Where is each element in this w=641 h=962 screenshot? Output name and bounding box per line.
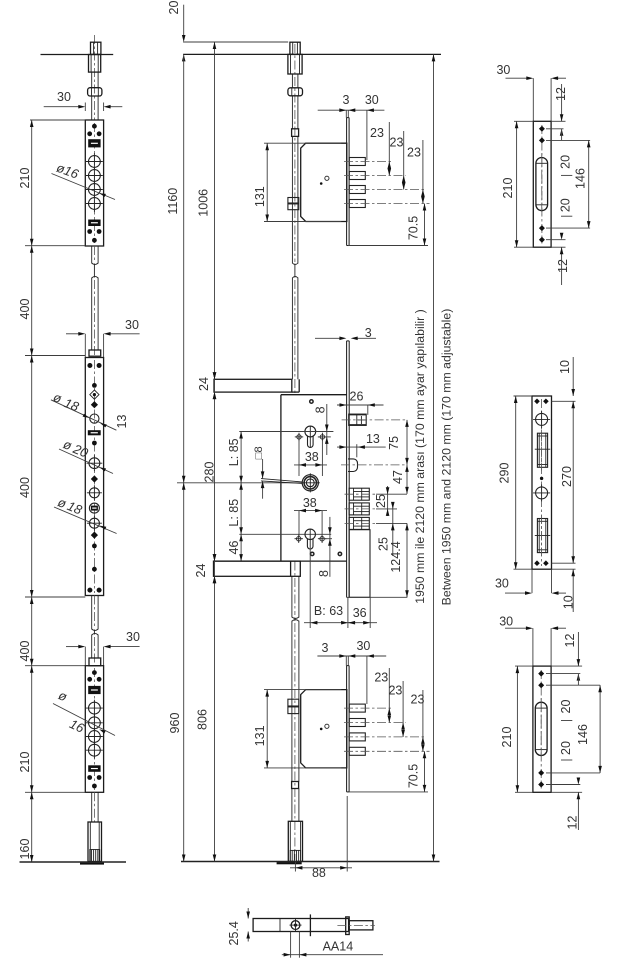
strike plate R3 bbox=[532, 628, 534, 666]
rod below mid lock bbox=[291, 576, 293, 617]
dim 270 R2 bbox=[552, 400, 576, 402]
leader Ø16 top bbox=[52, 174, 116, 200]
mid case screw hole top bbox=[310, 400, 313, 403]
svg-text:70.5: 70.5 bbox=[407, 764, 421, 788]
plate1 screws and logo top bbox=[92, 124, 97, 129]
svg-text:25: 25 bbox=[374, 494, 388, 508]
top tripler pins bbox=[349, 158, 365, 166]
section line bbox=[309, 914, 311, 936]
middle square connector top bbox=[292, 129, 299, 137]
bottom bolt tube middle bbox=[288, 821, 302, 861]
dim L:85 lower bbox=[240, 483, 242, 535]
lower tripler pins bbox=[349, 704, 365, 712]
svg-text:12: 12 bbox=[563, 634, 577, 648]
dim 25 b bbox=[392, 503, 394, 556]
middle bolt threaded end bbox=[290, 850, 300, 861]
svg-text:30: 30 bbox=[125, 318, 139, 332]
bottom section bar bbox=[253, 919, 349, 932]
svg-text:23: 23 bbox=[374, 671, 388, 685]
svg-text:1950 mm ile 2120 mm arası (170: 1950 mm ile 2120 mm arası (170 mm ayar y… bbox=[413, 309, 427, 604]
dim 400 #2 left (plate2) bbox=[31, 356, 33, 598]
flange bbox=[346, 917, 350, 935]
left rod nut bbox=[88, 88, 102, 96]
svg-text:20: 20 bbox=[559, 155, 573, 169]
R3 plate body bbox=[533, 666, 551, 792]
dim 88 bbox=[294, 862, 296, 872]
svg-text:38: 38 bbox=[303, 496, 317, 510]
left rod threaded top bbox=[91, 42, 101, 54]
dim 124.4 bbox=[406, 523, 408, 597]
top tripler faceplate bbox=[346, 118, 348, 246]
lower cross bar (24) band bbox=[214, 561, 301, 576]
svg-text:12: 12 bbox=[566, 816, 580, 830]
svg-text:270: 270 bbox=[560, 466, 574, 487]
svg-text:30: 30 bbox=[499, 614, 513, 628]
svg-text:26: 26 bbox=[350, 390, 364, 404]
auxiliary bolt bbox=[348, 459, 358, 472]
svg-text:23: 23 bbox=[407, 146, 421, 160]
left rod tube bbox=[89, 55, 101, 73]
plate3 screws and logo top bbox=[92, 670, 97, 675]
svg-text:L: 85: L: 85 bbox=[227, 438, 241, 466]
svg-text:8: 8 bbox=[313, 406, 327, 413]
svg-text:131: 131 bbox=[253, 186, 267, 207]
dim 806 bbox=[214, 576, 216, 861]
svg-text:20: 20 bbox=[559, 700, 573, 714]
mid lock case bbox=[280, 395, 282, 561]
middle nut bbox=[288, 88, 303, 96]
svg-text:20: 20 bbox=[167, 1, 181, 15]
top tripler screw marks bbox=[325, 176, 329, 180]
left connector block above plate2 bbox=[89, 350, 101, 356]
R2 slot 1 bbox=[537, 433, 547, 467]
svg-text:3: 3 bbox=[343, 93, 350, 107]
deadbolt block bbox=[349, 530, 370, 598]
lower tripler rod clamps bbox=[288, 699, 299, 706]
dim 24 lower bbox=[213, 554, 217, 561]
mid case bottom screw holes bbox=[311, 552, 314, 555]
square spindle bar bbox=[261, 479, 302, 482]
middle rod centerline bbox=[294, 44, 296, 262]
svg-text:210: 210 bbox=[500, 727, 514, 748]
svg-text:88: 88 bbox=[312, 866, 326, 880]
dim 210 R3 bbox=[515, 665, 533, 667]
svg-text:36: 36 bbox=[353, 606, 367, 620]
dim 70.5 top tripler bbox=[348, 245, 428, 247]
dim 38 upper bbox=[298, 441, 300, 477]
upper cylinder screws bbox=[297, 435, 301, 439]
svg-text:23: 23 bbox=[388, 684, 402, 698]
svg-text:210: 210 bbox=[18, 168, 32, 189]
top tripler case bbox=[301, 143, 347, 221]
svg-text:160: 160 bbox=[18, 839, 32, 860]
left plate 2 (middle 400) bbox=[85, 358, 103, 596]
door top edge line middle bbox=[183, 53, 441, 55]
lower euro cylinder bbox=[239, 533, 331, 535]
R3 screw holes bbox=[538, 671, 544, 677]
leader Ø18 bottom bbox=[54, 507, 117, 534]
R2 plate body bbox=[532, 396, 552, 569]
dim 24 upper bbox=[213, 372, 217, 379]
svg-text:23: 23 bbox=[390, 136, 404, 150]
R1 plate body bbox=[533, 121, 551, 247]
left plate 3 (bottom 210) bbox=[85, 666, 103, 793]
svg-text:B: 63: B: 63 bbox=[314, 604, 343, 618]
leader Ø16 bottom bbox=[53, 704, 115, 736]
dim 3 and 30 top tripler bbox=[318, 109, 385, 111]
svg-text:210: 210 bbox=[501, 178, 515, 199]
hook bolt combs bbox=[349, 488, 369, 500]
left plate 1 (top 210) bbox=[85, 120, 103, 246]
R3 right extension lines bbox=[551, 665, 582, 667]
leader Ø18 top with 13 bbox=[51, 400, 117, 430]
left floor line bbox=[20, 861, 127, 863]
svg-text:20: 20 bbox=[559, 198, 573, 212]
dim 47 bbox=[406, 465, 408, 494]
svg-text:30: 30 bbox=[356, 639, 370, 653]
svg-text:25.4: 25.4 bbox=[227, 921, 241, 945]
dim 25 a bbox=[387, 486, 389, 516]
R2 screw diamonds bbox=[534, 399, 540, 405]
dim 131 top tripler bbox=[264, 142, 341, 144]
svg-text:400: 400 bbox=[18, 477, 32, 498]
ext keyhole to B63 bbox=[309, 548, 311, 628]
overall adjustable-height dimension line bbox=[433, 54, 435, 861]
dim 160 left bbox=[31, 792, 33, 862]
dim 1160 bbox=[183, 54, 185, 482]
svg-text:30: 30 bbox=[57, 90, 71, 104]
left bottom bolt tube bbox=[88, 822, 102, 862]
leader Ø20 bbox=[59, 449, 113, 474]
R1 right extension lines bbox=[551, 120, 565, 122]
dim L:85 upper bbox=[240, 432, 242, 483]
lower tripler screw marks bbox=[325, 724, 329, 728]
spindle hole bbox=[291, 921, 300, 930]
upper cross bar (24) band bbox=[214, 379, 292, 392]
svg-text:Between 1950 mm and 2120 mm (1: Between 1950 mm and 2120 mm (170 mm adju… bbox=[440, 309, 454, 606]
left bolt threaded end bbox=[90, 850, 100, 862]
top tripler rod clamp blocks bbox=[288, 198, 299, 204]
dim 75 bbox=[406, 420, 408, 465]
dim 290 R2 bbox=[514, 395, 533, 397]
dim 46 bbox=[240, 534, 242, 561]
svg-text:210: 210 bbox=[18, 752, 32, 773]
svg-text:124.4: 124.4 bbox=[389, 541, 403, 572]
rod break lower bbox=[292, 617, 299, 619]
left rod between plate1 and plate2, with break bbox=[91, 246, 93, 264]
dim 1006 bbox=[214, 42, 216, 379]
svg-text:1006: 1006 bbox=[197, 189, 211, 217]
R1 slot bbox=[536, 157, 548, 210]
svg-text:290: 290 bbox=[498, 463, 512, 484]
svg-text:30: 30 bbox=[365, 93, 379, 107]
middle thin rod bbox=[291, 74, 293, 88]
svg-text:960: 960 bbox=[168, 713, 182, 734]
svg-text:146: 146 bbox=[576, 724, 590, 745]
svg-text:AA14: AA14 bbox=[323, 940, 354, 954]
plate1 four crossed holes (Ø16) bbox=[89, 156, 101, 168]
dim 960 bbox=[183, 483, 185, 862]
plate2 holes bbox=[87, 363, 92, 368]
dim 3 and 30 lower tripler bbox=[317, 655, 386, 657]
svg-text:30: 30 bbox=[496, 63, 510, 77]
svg-text:46: 46 bbox=[227, 541, 241, 555]
svg-text:24: 24 bbox=[194, 564, 208, 578]
dim 131 lower bbox=[264, 689, 341, 691]
svg-text:12: 12 bbox=[556, 259, 570, 273]
dim 210 #2 left bbox=[31, 666, 33, 793]
svg-text:75: 75 bbox=[387, 436, 401, 450]
svg-text:1160: 1160 bbox=[166, 188, 180, 215]
middle floor line bbox=[181, 861, 440, 863]
middle rod threaded top bbox=[290, 42, 300, 54]
plate1 bottom logo and screws bbox=[88, 220, 100, 227]
lower tripler faceplate bbox=[346, 666, 348, 792]
svg-text:13: 13 bbox=[115, 415, 129, 429]
upper euro cylinder bbox=[305, 426, 316, 437]
svg-text:□8: □8 bbox=[253, 446, 265, 459]
handle hub bbox=[302, 475, 318, 491]
R2 center dot bbox=[540, 477, 543, 480]
latch bolt bbox=[349, 414, 367, 425]
middle rod tube bbox=[288, 54, 302, 74]
dim 280 bbox=[214, 392, 216, 561]
dim 400 #3 left bbox=[31, 597, 33, 666]
svg-text:400: 400 bbox=[18, 641, 32, 662]
rod below lower tripler bbox=[291, 768, 293, 782]
svg-text:30: 30 bbox=[495, 577, 509, 591]
middle rod break upper bbox=[292, 263, 298, 265]
svg-text:20: 20 bbox=[559, 741, 573, 755]
ext line rod top bbox=[183, 41, 288, 43]
dim 210 left plate1 bbox=[31, 120, 33, 246]
svg-text:10: 10 bbox=[558, 360, 572, 374]
plate3 four crossed holes (Ø16) bbox=[89, 702, 101, 714]
hub centerline datum bbox=[177, 482, 302, 484]
svg-text:146: 146 bbox=[574, 168, 588, 189]
svg-text:13: 13 bbox=[366, 432, 380, 446]
svg-text:131: 131 bbox=[253, 725, 267, 746]
svg-text:38: 38 bbox=[305, 450, 319, 464]
left view rod centerline bbox=[93, 35, 95, 120]
dim 400 #1 left bbox=[31, 246, 33, 356]
svg-text:47: 47 bbox=[391, 470, 405, 484]
square connector bottom bbox=[292, 782, 299, 789]
svg-text:806: 806 bbox=[196, 709, 210, 730]
rod block in upper band bbox=[298, 379, 300, 392]
svg-text:8: 8 bbox=[317, 570, 331, 577]
svg-text:12: 12 bbox=[554, 87, 568, 101]
left connector block above plate3 bbox=[89, 658, 101, 666]
R3 slot bbox=[535, 702, 547, 755]
door top edge line left bbox=[41, 54, 114, 56]
middle rod below nut bbox=[291, 96, 293, 129]
mid lock faceplate bbox=[346, 341, 348, 597]
svg-text:400: 400 bbox=[18, 299, 32, 320]
R1 screw holes bbox=[539, 126, 545, 132]
dim 38 lower bbox=[298, 511, 300, 537]
dim 146 R1 bbox=[588, 140, 590, 228]
svg-text:280: 280 bbox=[203, 462, 217, 483]
left rod plate2-plate3 with break bbox=[91, 596, 93, 630]
svg-text:L: 85: L: 85 bbox=[227, 499, 241, 527]
left rod below nut bbox=[91, 96, 93, 120]
R2 slot 2 bbox=[537, 519, 547, 553]
svg-text:24: 24 bbox=[197, 377, 211, 391]
dim 70.5 lower bbox=[349, 791, 428, 793]
R2 crossed hole lower bbox=[536, 487, 548, 499]
dim 210 R1 bbox=[514, 120, 533, 122]
left rod below plate3 bbox=[91, 792, 93, 822]
svg-text:3: 3 bbox=[322, 641, 329, 655]
lower tripler case bbox=[301, 690, 347, 768]
svg-text:23: 23 bbox=[370, 126, 384, 140]
plate3 bottom logo and screws bbox=[88, 765, 100, 772]
left thin rod upper bbox=[91, 72, 93, 88]
svg-text:70.5: 70.5 bbox=[407, 216, 421, 240]
svg-text:30: 30 bbox=[126, 630, 140, 644]
R2 crossed hole upper bbox=[536, 413, 548, 425]
stub rod bbox=[349, 921, 373, 930]
dim 146 R3 bbox=[599, 685, 601, 773]
svg-text:23: 23 bbox=[411, 693, 425, 707]
strike plate R1 bbox=[532, 78, 534, 121]
